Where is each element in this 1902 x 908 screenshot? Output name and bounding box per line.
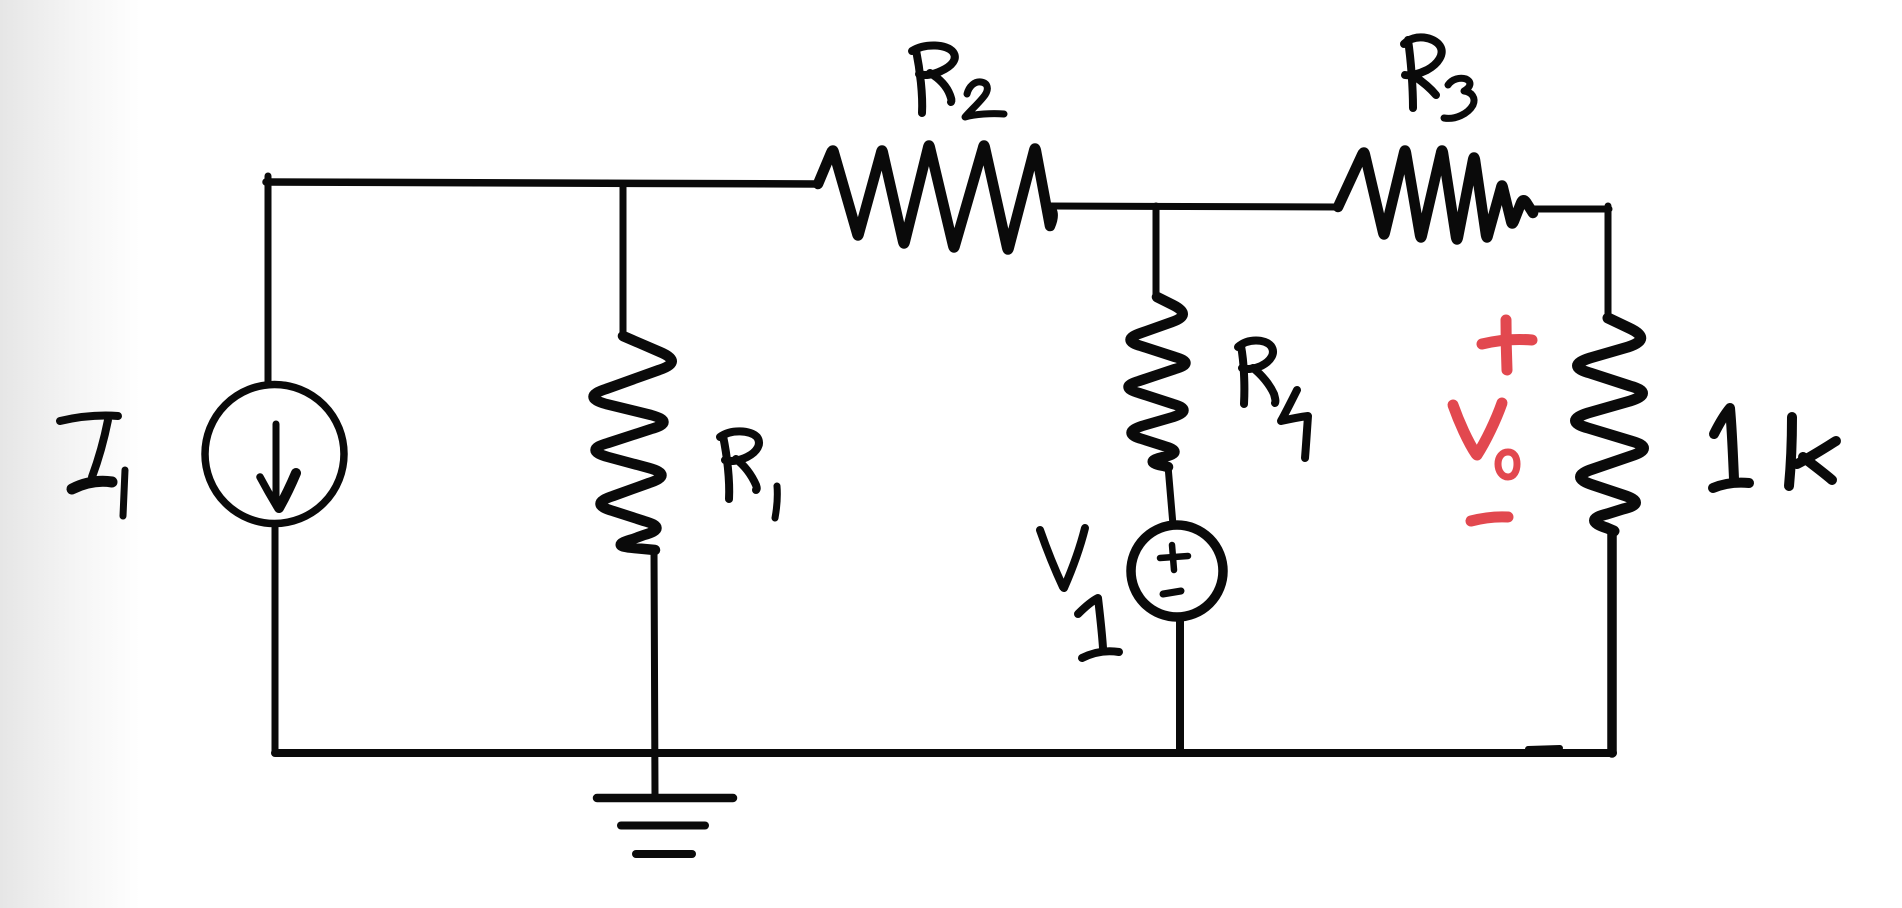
resistor 1k [1576,318,1644,531]
red minus mark [1471,517,1508,521]
voltage source V1 [1131,525,1223,617]
wire top left vertical [265,176,272,385]
red plus mark [1482,340,1532,345]
resistor R4 [1129,297,1186,467]
red label Vo [1453,405,1476,454]
wire bottom [275,749,1613,757]
label V1 [1040,528,1119,658]
wire bottom overlap hook [1528,748,1560,749]
label R3 [1404,37,1474,118]
wire right vertical lower [1607,531,1617,753]
label 1k [1713,408,1836,488]
label R2 [912,45,1004,117]
resistor R2 [818,146,1053,250]
wire R4 branch vertical [1153,206,1160,297]
ground [597,798,733,854]
resistor R3 [1338,151,1533,240]
label I1 [60,416,125,516]
wire R4 to V1 [1168,466,1173,525]
wire V1 bottom [1176,617,1184,753]
current source I1 [205,385,344,524]
wire R1 lower lead [654,549,655,795]
label R1 [720,431,777,518]
wire left lower vertical [272,527,279,753]
wire right vertical upper [1605,206,1612,318]
wire top horizontal [266,182,818,184]
label R4 [1238,341,1308,459]
wire middle horizontal [1048,206,1338,207]
wire R3 right [1530,206,1609,213]
resistor R1 [594,336,672,550]
wire R1 branch vertical [620,184,627,335]
